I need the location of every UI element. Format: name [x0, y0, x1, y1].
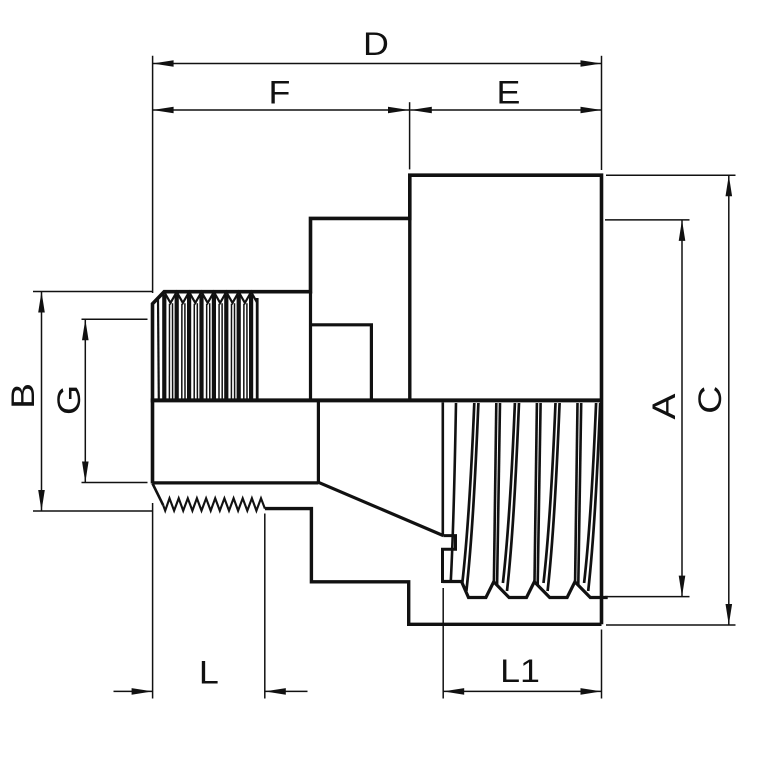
dim L extension lines: [152, 503, 154, 699]
dim D extension lines: [152, 56, 154, 293]
dim G line: [84, 319, 86, 482]
dim C extension lines: [606, 174, 736, 176]
svg-text:L1: L1: [500, 654, 540, 690]
dim L1 extension lines: [442, 588, 444, 699]
female thread end face line: [441, 403, 444, 536]
dim A line: [681, 220, 683, 597]
female thread teeth bottom profile: [443, 582, 608, 598]
chamfer shade line: [157, 299, 160, 400]
shank bottom line: [265, 509, 602, 625]
male thread runout boundary: [256, 298, 259, 400]
svg-text:E: E: [497, 75, 521, 111]
fitting body outline upper: [153, 175, 602, 624]
svg-text:G: G: [51, 385, 87, 415]
male thread thin flank lines: [168, 304, 170, 400]
centerline section edge: [151, 398, 602, 402]
svg-text:C: C: [692, 386, 728, 414]
svg-text:B: B: [5, 383, 41, 409]
svg-text:A: A: [646, 393, 682, 419]
svg-text:D: D: [363, 27, 389, 63]
mid body left edge below male top: [309, 292, 312, 401]
male thread thick flank bars: [162, 295, 166, 400]
dim E line: [410, 109, 601, 111]
dim G extension lines: [82, 318, 148, 320]
dim A extension lines: [605, 219, 690, 221]
svg-text:L: L: [199, 655, 219, 691]
big body left edge below mid top: [408, 218, 411, 400]
dim C line: [728, 175, 730, 625]
dim F line: [153, 109, 410, 111]
dim L1 line: [443, 690, 601, 692]
taper cone line: [318, 482, 443, 535]
dim L line with outside arrows: [114, 690, 153, 692]
dim D line: [153, 63, 602, 65]
female thread flank lines: [451, 403, 456, 581]
dim B extension lines: [33, 291, 152, 293]
bore end face: [317, 400, 320, 483]
hex flat inner step line: [311, 325, 372, 401]
male thread crest zigzag: [164, 292, 257, 303]
svg-text:F: F: [268, 75, 290, 111]
male bore line: [153, 481, 319, 484]
female thread mouth notch: [443, 536, 462, 582]
dim B line: [41, 292, 43, 512]
bottom chamfer: [153, 484, 164, 506]
male thread lower zigzag (section): [163, 498, 265, 510]
dim F/E mid extension: [409, 102, 411, 169]
male left face below centerline: [151, 400, 155, 483]
